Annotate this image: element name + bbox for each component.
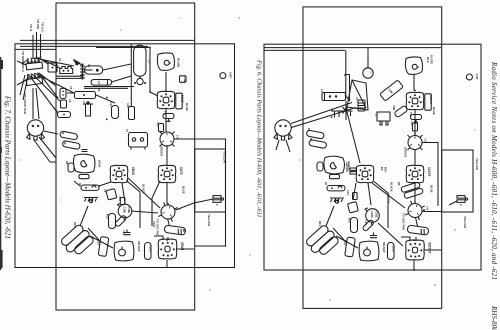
capacitor C6 bbox=[61, 100, 67, 108]
trimmer cross comp bbox=[331, 107, 353, 118]
resistor R12r bbox=[351, 218, 358, 233]
wire lead dial lamp bbox=[32, 35, 34, 59]
svg-text:C18D: C18D bbox=[123, 207, 127, 214]
terminal strip comb lower bbox=[25, 72, 42, 86]
capacitor C16 bbox=[124, 230, 131, 235]
twin terminal strip bbox=[60, 67, 73, 74]
svg-text:L2: L2 bbox=[97, 81, 101, 85]
wire V2 to C18 bbox=[122, 178, 160, 228]
oscillator gang circle C bbox=[158, 202, 177, 221]
oscillator coil circle L4 bbox=[160, 132, 175, 147]
tube socket V2r 12BA6 bbox=[356, 165, 374, 182]
wire pot leads bbox=[276, 140, 290, 152]
svg-text:TW: TW bbox=[409, 112, 413, 117]
wire pot to coil bbox=[291, 103, 356, 128]
svg-text:ANT: ANT bbox=[229, 72, 233, 78]
wire gang to right wing bbox=[174, 139, 226, 246]
svg-text:35L6GT: 35L6GT bbox=[137, 241, 141, 252]
IF can with legs bbox=[377, 112, 390, 125]
svg-text:C15: C15 bbox=[346, 190, 350, 195]
svg-text:YELLOW: YELLOW bbox=[463, 216, 467, 228]
candohm resistor cluster bbox=[59, 223, 95, 259]
capacitor striped C3 bbox=[358, 100, 365, 111]
svg-text:R5: R5 bbox=[61, 131, 65, 135]
terminal board pill bbox=[322, 93, 346, 101]
antenna terminal circle right bbox=[466, 74, 472, 80]
svg-text:35Z5GT: 35Z5GT bbox=[428, 242, 432, 254]
svg-text:6AT6: 6AT6 bbox=[179, 167, 183, 175]
wire drop to dial bbox=[346, 48, 368, 96]
cap marks bbox=[82, 150, 88, 152]
electrolytic C7 with bracket bbox=[83, 102, 93, 117]
capacitor block tilted bbox=[106, 189, 117, 200]
svg-text:BLACK: BLACK bbox=[390, 182, 394, 192]
output transformer T2r bbox=[359, 241, 379, 261]
svg-text:C18E: C18E bbox=[127, 207, 131, 214]
oscillator coil circle L4r bbox=[408, 135, 423, 150]
capacitor C13 bbox=[112, 106, 119, 119]
resistor R8 bbox=[68, 163, 74, 172]
resistor R6 tilted bbox=[62, 140, 80, 149]
svg-text:ANT: ANT bbox=[475, 74, 479, 80]
terminal strip TT bbox=[213, 196, 221, 206]
oscillator gang circle Cr bbox=[405, 201, 424, 220]
capacitor C2B tilted bbox=[380, 80, 404, 101]
svg-text:C18A: C18A bbox=[152, 221, 156, 228]
trimmer TWr bbox=[411, 115, 422, 120]
label 12SA7 bbox=[425, 94, 431, 110]
capacitor C9B tilted bbox=[394, 105, 408, 117]
tube socket V2 6BA6 bbox=[110, 165, 128, 182]
chassis side-view outline (Fig.7 wide rectangle) bbox=[15, 44, 235, 268]
capacitor C8 pill bbox=[58, 112, 71, 118]
svg-text:TO PM.: TO PM. bbox=[36, 19, 40, 30]
svg-text:BL42B: BL42B bbox=[177, 58, 181, 67]
wire fan to pot bbox=[33, 88, 39, 119]
svg-text:R10: R10 bbox=[384, 167, 388, 172]
svg-text:C7: C7 bbox=[82, 101, 86, 105]
svg-text:RHS-800: RHS-800 bbox=[490, 305, 498, 330]
capacitor C15r bbox=[353, 193, 358, 200]
chassis top-view outline (Fig.7 tall rectangle) bbox=[56, 3, 195, 310]
svg-text:Fig. 7. Chassis Parts Layout—: Fig. 7. Chassis Parts Layout—Models H-62… bbox=[4, 95, 12, 239]
svg-text:L3: L3 bbox=[147, 60, 151, 64]
svg-text:GREEN: GREEN bbox=[404, 147, 408, 157]
wire pill lead bbox=[74, 181, 111, 186]
oscillator coil label box bbox=[91, 80, 112, 86]
speaker compartment rectangle bbox=[195, 149, 226, 212]
capacitor C20r bbox=[413, 123, 418, 131]
grommet below L3 bbox=[137, 78, 143, 84]
svg-text:L2: L2 bbox=[375, 113, 379, 117]
svg-text:R12: R12 bbox=[106, 214, 110, 219]
svg-text:L4: L4 bbox=[424, 139, 428, 143]
wire top bundle bbox=[15, 40, 194, 49]
svg-text:R8: R8 bbox=[65, 161, 69, 165]
svg-text:TO A.C.: TO A.C. bbox=[41, 22, 45, 33]
svg-text:PLATE: PLATE bbox=[430, 55, 434, 64]
candohm resistor cluster right bbox=[304, 223, 340, 259]
trimmer TW bbox=[163, 114, 174, 119]
svg-text:TO OSC PAD: TO OSC PAD bbox=[402, 213, 406, 230]
svg-text:12BA6: 12BA6 bbox=[345, 162, 349, 172]
svg-text:C2B: C2B bbox=[183, 77, 187, 82]
capacitor diag pill right bbox=[362, 219, 374, 231]
svg-text:GREEN: GREEN bbox=[160, 146, 164, 156]
wire into V5r bbox=[401, 237, 410, 241]
capacitor C14 bbox=[129, 107, 135, 120]
svg-text:TO OSC PAD: TO OSC PAD bbox=[156, 219, 160, 236]
svg-text:C3: C3 bbox=[355, 97, 359, 101]
svg-text:R9: R9 bbox=[380, 167, 384, 171]
resistor pill with dots bbox=[81, 185, 99, 190]
tube socket V3r 12AT6 bbox=[406, 165, 424, 182]
svg-text:R1: R1 bbox=[74, 62, 78, 66]
svg-text:R12: R12 bbox=[348, 218, 352, 223]
svg-text:C18E: C18E bbox=[374, 211, 378, 218]
dial bracket quad bbox=[347, 80, 368, 110]
coil pill L5r bbox=[407, 225, 429, 235]
svg-text:C18D: C18D bbox=[370, 211, 374, 218]
volume control pot bbox=[27, 120, 45, 140]
label pill bbox=[79, 175, 89, 179]
mounting blob upper bbox=[157, 53, 174, 70]
capacitor C18C bbox=[145, 243, 152, 260]
svg-text:C20: C20 bbox=[410, 121, 414, 126]
svg-text:BLUE: BLUE bbox=[430, 185, 434, 193]
coil L2 pill bbox=[85, 66, 103, 74]
svg-text:TW: TW bbox=[163, 111, 167, 116]
svg-text:6BA6: 6BA6 bbox=[131, 167, 135, 175]
tube socket V5 bbox=[158, 239, 177, 259]
svg-text:BLK: BLK bbox=[426, 57, 430, 63]
svg-text:12SA7: 12SA7 bbox=[429, 95, 433, 105]
terminal strip comb upper bbox=[25, 57, 42, 70]
capacitor C20 bbox=[159, 124, 164, 132]
svg-text:R7: R7 bbox=[78, 183, 82, 187]
coil pill L5 bbox=[164, 225, 186, 235]
label pill right bbox=[330, 175, 340, 179]
tiny part labels right bbox=[307, 89, 414, 226]
resistor R12 bbox=[109, 214, 116, 229]
wire top bundle right bbox=[264, 48, 441, 51]
tube socket V1r 12SA7 bbox=[406, 92, 424, 109]
terminal strip TTr bbox=[457, 196, 465, 206]
capacitor C15 bbox=[120, 198, 125, 205]
svg-text:C5: C5 bbox=[69, 86, 73, 90]
label 6SA7 bbox=[176, 93, 182, 109]
capacitor diag pill bbox=[115, 215, 127, 227]
svg-text:L: L bbox=[370, 72, 374, 74]
resistor R8r bbox=[317, 162, 323, 171]
svg-text:R6: R6 bbox=[63, 141, 67, 145]
svg-text:6AV6: 6AV6 bbox=[98, 160, 102, 167]
wire C14 feed bbox=[130, 44, 132, 106]
wire diag dial bbox=[345, 95, 360, 163]
tube socket V5r bbox=[406, 240, 425, 260]
electrolytic C18 bbox=[118, 203, 132, 220]
capacitor C5 bbox=[60, 88, 66, 98]
IF transformer T1 bbox=[129, 133, 148, 148]
speaker blob bbox=[73, 154, 95, 173]
svg-text:BLUE: BLUE bbox=[432, 107, 436, 115]
svg-text:L5: L5 bbox=[426, 207, 430, 211]
chassis top-view outline (Fig.6 tall rectangle) bbox=[303, 7, 442, 309]
svg-text:R6: R6 bbox=[309, 138, 313, 142]
antenna rod coil L3 bbox=[134, 45, 146, 76]
svg-text:C13: C13 bbox=[109, 102, 113, 107]
svg-text:C14: C14 bbox=[126, 103, 130, 108]
resistor pair tilted below V3r bbox=[401, 182, 421, 193]
svg-text:C15: C15 bbox=[118, 196, 122, 201]
arrow flag bbox=[74, 60, 80, 66]
svg-text:Fig. 6. Chassis Parts Layout—: Fig. 6. Chassis Parts Layout—Models H-60… bbox=[256, 59, 263, 217]
svg-text:C3: C3 bbox=[87, 64, 91, 68]
svg-text:C8: C8 bbox=[55, 110, 59, 114]
wire L4r to gang bbox=[423, 143, 439, 206]
capacitor block tilted right bbox=[347, 202, 358, 213]
svg-text:Radio Service Notes on Models: Radio Service Notes on Models H-600, -60… bbox=[490, 61, 498, 280]
output transformer T2 bbox=[114, 241, 134, 261]
svg-text:BLUE: BLUE bbox=[182, 186, 186, 194]
svg-text:C1: C1 bbox=[58, 58, 62, 62]
resistor R11 bbox=[107, 212, 109, 214]
capacitor block C1 bbox=[48, 63, 57, 72]
svg-text:R14: R14 bbox=[73, 222, 77, 227]
speaker compartment rectangle right bbox=[442, 150, 473, 212]
antenna terminal circle bbox=[220, 73, 226, 79]
resistor R5 tilted bbox=[60, 131, 78, 140]
wire pair mid bbox=[56, 76, 134, 88]
wire bottom leads bbox=[80, 181, 194, 249]
wire lead TO PM SPKR bbox=[36, 32, 38, 58]
junction column bbox=[82, 64, 84, 80]
scan edge artifact left bar bbox=[0, 57, 3, 270]
tube socket V3 6AT6 bbox=[158, 165, 176, 182]
scan noise specks bbox=[20, 17, 476, 300]
wire gang right lead bbox=[423, 201, 458, 212]
resistor pill with dots right bbox=[327, 186, 345, 191]
wire into V5 bbox=[154, 236, 163, 240]
svg-text:C18C: C18C bbox=[149, 245, 153, 252]
resistor R6r bbox=[309, 139, 327, 148]
svg-text:C18C: C18C bbox=[392, 245, 396, 252]
svg-text:TO G.: TO G. bbox=[29, 24, 33, 32]
svg-text:L4: L4 bbox=[176, 135, 180, 139]
ground lug symbol right bbox=[330, 198, 344, 203]
svg-text:C9: C9 bbox=[103, 189, 107, 193]
svg-text:BLUE: BLUE bbox=[185, 103, 189, 111]
wire fan leads left bbox=[17, 61, 26, 85]
wire fan to parts bbox=[20, 58, 74, 112]
svg-text:50L6GT: 50L6GT bbox=[382, 242, 386, 253]
tube socket V1 6SA7 bbox=[157, 91, 175, 108]
capacitor C16r bbox=[370, 233, 377, 238]
dial pulley circle bbox=[363, 68, 373, 78]
svg-text:C20: C20 bbox=[156, 122, 160, 127]
svg-text:12AT6: 12AT6 bbox=[427, 167, 431, 177]
svg-text:C16: C16 bbox=[122, 230, 126, 235]
svg-text:YELLOW: YELLOW bbox=[207, 214, 211, 226]
wire lead TO AC OUTLET bbox=[40, 34, 42, 57]
svg-text:R14: R14 bbox=[318, 221, 322, 226]
svg-text:R4: R4 bbox=[97, 88, 101, 92]
capacitor C18Cr bbox=[388, 243, 395, 260]
wire V2r leads bbox=[353, 182, 388, 229]
svg-text:YELLOW: YELLOW bbox=[475, 158, 479, 170]
small terminal pair right bbox=[350, 168, 357, 170]
electrolytic C18r bbox=[365, 208, 379, 225]
svg-text:R9: R9 bbox=[397, 182, 401, 186]
svg-text:C9B: C9B bbox=[392, 105, 396, 110]
resistor block R4 bbox=[75, 92, 96, 99]
wire pot to chassis bbox=[34, 131, 58, 162]
svg-text:C6: C6 bbox=[68, 99, 72, 103]
svg-text:6SA7: 6SA7 bbox=[180, 95, 184, 103]
svg-text:R7: R7 bbox=[324, 182, 328, 186]
wire socket column right bbox=[414, 75, 418, 272]
capacitor C2B box bbox=[180, 76, 187, 83]
resistor R13 bbox=[98, 237, 109, 257]
ground lug symbol bbox=[84, 198, 98, 203]
svg-text:C16: C16 bbox=[364, 220, 368, 225]
wire osc section bbox=[67, 46, 158, 103]
resistor R13r bbox=[345, 237, 356, 257]
svg-text:R5: R5 bbox=[307, 128, 311, 132]
mounting blob right bbox=[405, 57, 422, 74]
resistor R5r bbox=[306, 130, 324, 139]
volume pot right bbox=[274, 120, 292, 140]
tiny part labels left bbox=[55, 58, 167, 235]
speaker blob right bbox=[324, 156, 345, 174]
chassis side-view outline (Fig.6 wide rectangle) bbox=[264, 44, 481, 270]
wire socket column bbox=[166, 72, 170, 267]
wire bottom leads right bbox=[326, 183, 442, 250]
